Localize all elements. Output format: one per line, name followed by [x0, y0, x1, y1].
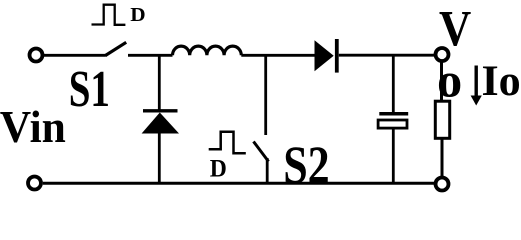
svg-text:V: V [439, 1, 471, 57]
svg-text:Vin: Vin [0, 101, 66, 152]
svg-text:o: o [437, 53, 462, 107]
svg-text:D: D [210, 155, 227, 183]
svg-text:D: D [130, 4, 145, 26]
svg-text:S2: S2 [283, 135, 329, 194]
svg-text:Io: Io [482, 57, 521, 105]
svg-text:S1: S1 [69, 60, 110, 118]
